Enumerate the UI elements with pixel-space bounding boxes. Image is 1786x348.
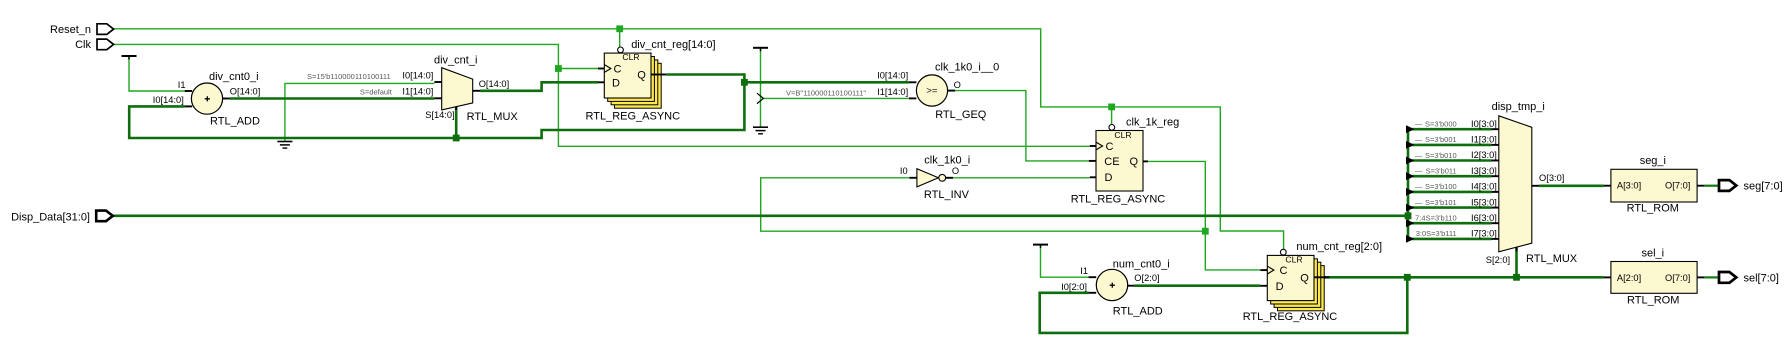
svg-text:clk_1k0_i: clk_1k0_i	[924, 155, 970, 167]
svg-text:div_cnt0_i: div_cnt0_i	[209, 71, 259, 83]
svg-text:RTL_INV: RTL_INV	[924, 189, 970, 201]
wire Clk branch to div_cnt_reg C	[558, 68, 598, 70]
register num_cnt_reg[2:0] (RTL_REG_ASYNC)	[1243, 241, 1382, 323]
svg-text:S=3'b100: S=3'b100	[1425, 182, 1457, 191]
svg-text:A[3:0]: A[3:0]	[1617, 181, 1641, 191]
svg-text:div_cnt_reg[14:0]: div_cnt_reg[14:0]	[631, 39, 715, 51]
svg-text:I3[3:0]: I3[3:0]	[1471, 166, 1497, 176]
svg-text:S[14:0]: S[14:0]	[425, 110, 454, 120]
svg-text:S=default: S=default	[360, 87, 393, 96]
power constant-1 bar (num_cnt0_i I1)	[1033, 245, 1048, 249]
output port seg[7:0]	[1719, 180, 1783, 192]
svg-text:O[14:0]: O[14:0]	[230, 87, 260, 97]
svg-text:Q: Q	[637, 70, 646, 82]
rom seg_i (RTL_ROM)	[1604, 155, 1705, 214]
svg-text:—: —	[1415, 120, 1423, 129]
svg-text:Q: Q	[1300, 273, 1309, 285]
adder div_cnt0_i (RTL_ADD)	[153, 71, 261, 127]
svg-text:RTL_ROM: RTL_ROM	[1627, 203, 1679, 215]
svg-text:RTL_ROM: RTL_ROM	[1627, 295, 1679, 307]
svg-text:CLR: CLR	[1285, 255, 1302, 265]
svg-text:O[14:0]: O[14:0]	[479, 79, 510, 89]
svg-text:I4[3:0]: I4[3:0]	[1471, 182, 1497, 192]
svg-text:D: D	[612, 77, 620, 89]
junction clk_1k net	[1202, 228, 1209, 235]
junction Clk / div C	[555, 65, 562, 72]
wire clk_1k_reg Q branch to clk_1k0_i I0	[761, 178, 1206, 231]
wire Disp_Data slice taps to disp_tmp_i I0-I7	[1408, 129, 1492, 239]
svg-text:C: C	[1106, 141, 1114, 153]
svg-text:clk_1k0_i__0: clk_1k0_i__0	[935, 62, 999, 74]
wire clk_1k0_i O to clk_1k_reg D	[953, 177, 1090, 179]
wire Disp_Data vertical distribution bus	[1407, 129, 1410, 239]
svg-text:I0[14:0]: I0[14:0]	[402, 70, 433, 80]
wire disp_tmp_i O to seg_i A	[1539, 185, 1604, 188]
svg-text:O[7:0]: O[7:0]	[1665, 273, 1690, 283]
ground of vector constant ladder	[753, 127, 768, 134]
svg-text:I1: I1	[1080, 266, 1088, 276]
adder num_cnt0_i (RTL_ADD)	[1061, 259, 1170, 318]
svg-text:I0: I0	[900, 166, 908, 176]
register div_cnt_reg[14:0] (RTL_REG_ASYNC)	[586, 39, 716, 123]
svg-text:I1[14:0]: I1[14:0]	[877, 87, 908, 97]
power bar of vector constant ladder	[753, 48, 768, 52]
svg-text:Q: Q	[1130, 156, 1139, 168]
svg-text:RTL_ADD: RTL_ADD	[210, 115, 260, 127]
svg-text:I1[14:0]: I1[14:0]	[402, 87, 433, 97]
register clk_1k_reg (RTL_REG_ASYNC)	[1071, 116, 1180, 205]
wire div_cnt0_i O to div_cnt_i I1	[230, 97, 435, 100]
wire Disp_Data bus	[113, 215, 1408, 218]
svg-text:O[2:0]: O[2:0]	[1134, 273, 1159, 283]
svg-text:—: —	[1415, 151, 1423, 160]
svg-text:C: C	[614, 63, 622, 75]
junction num_cnt_reg Q / feedback	[1404, 274, 1411, 281]
svg-text:O[3:0]: O[3:0]	[1539, 173, 1564, 183]
svg-text:I0[3:0]: I0[3:0]	[1471, 119, 1497, 129]
svg-text:>=: >=	[926, 86, 938, 97]
input port Clk	[75, 39, 113, 51]
svg-text:num_cnt0_i: num_cnt0_i	[1113, 259, 1170, 271]
wire num_cnt_reg Q feedback to num_cnt0_i I0	[1040, 277, 1408, 333]
input port Reset_n	[50, 24, 114, 36]
wire sel_i O to sel port	[1704, 276, 1719, 278]
wire constant-1 to num_cnt0_i I1	[1041, 246, 1089, 278]
bus tap chevron on constant ladder	[757, 93, 763, 103]
wire Reset_n branch to div_cnt_reg CLR	[619, 29, 621, 47]
junction num feedback / disp mux S	[1513, 274, 1520, 281]
junction Reset_n / div CLR	[616, 25, 623, 32]
svg-text:—: —	[1415, 167, 1423, 176]
wire constant ladder V=B"110000110100111"	[760, 49, 762, 127]
svg-text:I7[3:0]: I7[3:0]	[1471, 229, 1497, 239]
svg-text:RTL_REG_ASYNC: RTL_REG_ASYNC	[1071, 193, 1166, 205]
svg-text:Reset_n: Reset_n	[50, 24, 91, 36]
svg-text:I1: I1	[178, 80, 186, 90]
svg-text:sel_i: sel_i	[1642, 247, 1665, 259]
power constant-1 bar (div_cnt0_i I1)	[122, 56, 137, 60]
svg-text:I5[3:0]: I5[3:0]	[1471, 197, 1497, 207]
rom sel_i (RTL_ROM)	[1604, 247, 1705, 306]
input port Disp_Data[31:0]	[11, 211, 113, 224]
svg-text:O[7:0]: O[7:0]	[1665, 181, 1690, 191]
svg-text:CE: CE	[1104, 156, 1119, 168]
svg-text:disp_tmp_i: disp_tmp_i	[1492, 101, 1545, 113]
svg-text:I0[14:0]: I0[14:0]	[877, 70, 908, 80]
svg-text:3:0S=3'b111: 3:0S=3'b111	[1416, 229, 1457, 238]
mux div_cnt_i (RTL_MUX)	[307, 55, 518, 124]
wire Reset_n net (to CLR pins)	[113, 29, 1284, 249]
wire clk_1k_reg Q net	[1148, 161, 1260, 270]
wire constant-1 to div_cnt0_i I1	[129, 57, 185, 91]
svg-text:D: D	[1105, 172, 1113, 184]
wire feedback branch to div_cnt_i S	[455, 106, 458, 139]
wire feedback branch to disp_tmp_i S	[1515, 247, 1518, 277]
comparator clk_1k0_i__0 (RTL_GEQ)	[786, 62, 999, 121]
svg-text:S=3'b001: S=3'b001	[1425, 135, 1457, 144]
ground constant-0 (div_cnt_i I0)	[277, 142, 292, 149]
wire div_cnt_i O to div_cnt_reg D	[480, 82, 598, 91]
wire clk_1k0_i__0 O to clk_1k_reg CE	[948, 91, 1089, 161]
svg-text:Clk: Clk	[75, 39, 91, 51]
svg-text:div_cnt_i: div_cnt_i	[434, 55, 477, 67]
svg-text:C: C	[1280, 265, 1288, 277]
svg-text:seg[7:0]: seg[7:0]	[1744, 180, 1783, 192]
svg-text:O: O	[954, 80, 961, 90]
wire num_cnt_reg Q to sel_i A	[1322, 276, 1604, 279]
svg-text:RTL_REG_ASYNC: RTL_REG_ASYNC	[586, 111, 681, 123]
svg-text:RTL_ADD: RTL_ADD	[1113, 305, 1163, 317]
svg-text:—: —	[1415, 182, 1423, 191]
svg-text:—: —	[1415, 198, 1423, 207]
svg-text:RTL_MUX: RTL_MUX	[1526, 253, 1578, 265]
svg-text:D: D	[1276, 281, 1284, 293]
svg-text:seg_i: seg_i	[1640, 155, 1666, 167]
wire seg_i O to seg port	[1704, 185, 1719, 187]
svg-text:—: —	[1415, 135, 1423, 144]
svg-text:RTL_REG_ASYNC: RTL_REG_ASYNC	[1243, 311, 1338, 323]
svg-text:clk_1k_reg: clk_1k_reg	[1126, 116, 1179, 128]
svg-text:V=B"110000110100111": V=B"110000110100111"	[786, 88, 866, 97]
mux disp_tmp_i (RTL_MUX)	[1406, 101, 1578, 265]
wire constant value to clk_1k0_i__0 I1	[763, 97, 909, 99]
junction div feedback / mux S	[453, 135, 460, 142]
svg-text:RTL_MUX: RTL_MUX	[467, 111, 519, 123]
wire constant-0 to div_cnt_i I0	[285, 83, 435, 141]
svg-text:CLR: CLR	[622, 52, 639, 62]
svg-text:I0[14:0]: I0[14:0]	[153, 95, 184, 105]
svg-text:I6[3:0]: I6[3:0]	[1471, 213, 1497, 223]
wire div_cnt_reg Q to clk_1k0_i__0 I0	[666, 75, 909, 83]
svg-text:CLR: CLR	[1114, 130, 1131, 140]
junction Disp_Data / vertical bus	[1405, 212, 1412, 219]
svg-text:RTL_GEQ: RTL_GEQ	[935, 109, 987, 121]
svg-text:Disp_Data[31:0]: Disp_Data[31:0]	[11, 212, 90, 224]
svg-text:sel[7:0]: sel[7:0]	[1744, 273, 1779, 285]
svg-text:A[2:0]: A[2:0]	[1617, 273, 1641, 283]
svg-text:I0[2:0]: I0[2:0]	[1061, 282, 1087, 292]
wire num_cnt0_i O to num_cnt_reg D	[1134, 284, 1260, 287]
svg-text:S=3'b011: S=3'b011	[1426, 167, 1457, 176]
svg-text:I1[3:0]: I1[3:0]	[1471, 135, 1497, 145]
svg-text:S=3'b010: S=3'b010	[1425, 151, 1457, 160]
svg-text:S=15'b110000110100111: S=15'b110000110100111	[307, 72, 391, 81]
junction Reset_n / clk CLR	[1108, 104, 1115, 111]
svg-text:7:4S=3'b110: 7:4S=3'b110	[1415, 214, 1457, 223]
svg-text:O: O	[952, 166, 959, 176]
svg-text:I2[3:0]: I2[3:0]	[1471, 150, 1497, 160]
output port sel[7:0]	[1719, 272, 1779, 285]
svg-text:S=3'b000: S=3'b000	[1425, 120, 1457, 129]
wire Clk net	[113, 44, 1090, 146]
svg-text:S[2:0]: S[2:0]	[1486, 255, 1510, 265]
svg-text:S=3'b101: S=3'b101	[1425, 198, 1457, 207]
inverter clk_1k0_i (RTL_INV)	[900, 155, 970, 202]
svg-text:num_cnt_reg[2:0]: num_cnt_reg[2:0]	[1296, 241, 1382, 253]
wire Reset_n branch to clk_1k_reg CLR	[1111, 107, 1113, 125]
wire div_cnt_reg Q feedback to div_cnt0_i I0	[129, 82, 744, 138]
junction div_cnt_reg Q	[741, 79, 748, 86]
